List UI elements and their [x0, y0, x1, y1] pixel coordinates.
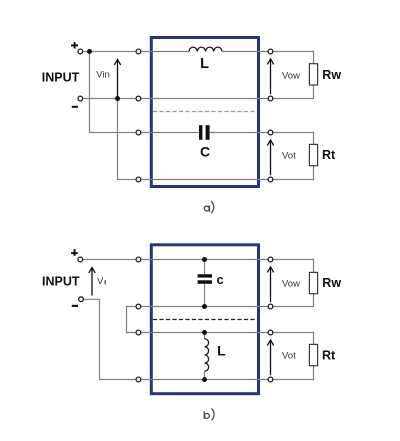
- wire: capacitor bottom lead (b): [204, 284, 206, 307]
- voltage arrow Vot (b): [270, 341, 272, 375]
- wire: 3rd line inside box left of C (a): [141, 132, 199, 134]
- wire: 3rd line inside box right of C (a): [210, 132, 268, 134]
- wire: shorting bracket between middle terminals (b): [127, 307, 136, 333]
- wire: + terminal to box (a): [83, 51, 135, 53]
- svg-text:c: c: [217, 272, 224, 287]
- voltage arrow Vi (b): [91, 268, 93, 295]
- voltage arrow Vin (a): [117, 60, 119, 97]
- caption a): [204, 201, 214, 213]
- node: inductor top dot (b): [202, 330, 207, 335]
- svg-text:Rw: Rw: [322, 68, 341, 82]
- wire: + terminal to box (b): [83, 259, 135, 261]
- wire: Rt loop (a): [273, 133, 313, 145]
- wire: 2nd line inside box (b): [141, 306, 268, 308]
- svg-text:Rw: Rw: [322, 276, 341, 290]
- wire: 4th line inside box (a): [141, 179, 268, 181]
- wire: Rw loop (a): [273, 52, 313, 64]
- wire: inductor top lead (b): [204, 333, 206, 339]
- wire: vertical from - node down to 4th line (a): [118, 99, 136, 180]
- terminal - (a): [78, 96, 83, 101]
- inductor L (b): [205, 339, 209, 372]
- wire: capacitor top lead (b): [204, 260, 206, 275]
- node: - junction dot (a): [115, 96, 120, 101]
- resistor Rt (a): [309, 144, 317, 165]
- label + (a): [71, 44, 78, 46]
- wire: - terminal down to 4th line (b): [84, 299, 135, 379]
- wire: Rw loop (b): [273, 260, 313, 273]
- wire: 2nd line inside box (a): [141, 98, 268, 100]
- svg-text:Rt: Rt: [322, 348, 336, 362]
- wire: top line inside box left of L (a): [141, 51, 189, 53]
- svg-text:C: C: [200, 143, 210, 159]
- resistor Rt (b): [309, 344, 317, 365]
- node: + junction dot (a): [87, 49, 92, 54]
- wire: 4th line inside box (b): [141, 379, 268, 381]
- two-port network box (b): [151, 245, 258, 394]
- svg-text:Vot: Vot: [282, 150, 296, 161]
- wire: vertical from + node down to 3rd line (a): [90, 52, 136, 133]
- wire: top line inside box (b): [141, 259, 268, 261]
- wire: top line inside box right of L (a): [222, 51, 268, 53]
- svg-text:Rt: Rt: [322, 148, 336, 162]
- label + (b): [71, 252, 78, 254]
- two-port network box (a): [151, 38, 258, 187]
- svg-text:L: L: [217, 343, 226, 359]
- terminal - (b): [79, 297, 84, 302]
- svg-text:Vin: Vin: [96, 69, 110, 80]
- box terminals left (b): [136, 257, 141, 262]
- voltage arrow Vow (a): [270, 60, 272, 94]
- terminal + (a): [78, 49, 83, 54]
- capacitor C (a): [199, 125, 202, 140]
- label - (a): [72, 106, 78, 108]
- label - (b): [72, 305, 78, 307]
- terminal + (b): [78, 257, 83, 262]
- voltage arrow Vow (b): [270, 268, 272, 302]
- resistor Rw (b): [309, 272, 317, 293]
- wire: inductor bottom lead (b): [204, 371, 206, 379]
- box terminals right (a): [268, 49, 273, 54]
- dashed divider (a): [153, 111, 257, 113]
- wire: 3rd line inside box (b): [141, 332, 268, 334]
- svg-text:V: V: [97, 276, 104, 287]
- caption b): [204, 409, 214, 421]
- box terminals left (a): [136, 49, 141, 54]
- wire: Rt loop (b): [273, 333, 313, 345]
- resistor Rw (a): [309, 64, 317, 85]
- capacitor c (b): [198, 274, 212, 277]
- node: inductor bottom dot (b): [202, 377, 207, 382]
- voltage arrow Vot (a): [270, 141, 272, 175]
- wire: - terminal to box (a): [83, 98, 135, 100]
- svg-text:INPUT: INPUT: [42, 274, 80, 288]
- svg-text:Vot: Vot: [282, 351, 296, 362]
- dashed divider (b): [153, 319, 257, 321]
- node: capacitor top dot (b): [202, 257, 207, 262]
- svg-text:L: L: [200, 56, 209, 72]
- svg-text:Vow: Vow: [282, 279, 300, 290]
- node: capacitor bottom dot (b): [202, 304, 207, 309]
- svg-text:INPUT: INPUT: [42, 71, 80, 85]
- inductor L (a): [189, 47, 222, 51]
- svg-text:Vow: Vow: [282, 71, 300, 82]
- box terminals right (b): [268, 257, 273, 262]
